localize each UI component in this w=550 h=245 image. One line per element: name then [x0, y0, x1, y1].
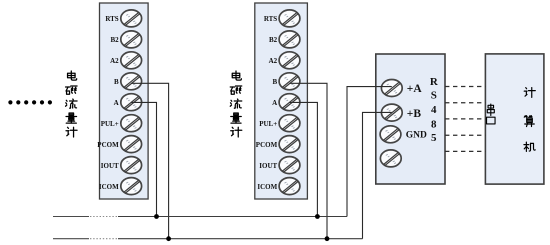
lower bus B-line dotted gap segment	[90, 238, 118, 240]
flowmeter2 terminal IOUT screw	[279, 157, 300, 174]
serial dashed line 4	[445, 134, 485, 136]
svg-text:PCOM: PCOM	[97, 141, 119, 149]
svg-text:GND: GND	[406, 131, 427, 141]
svg-text:IOUT: IOUT	[259, 162, 277, 170]
caption: computer (ji suan ji vertical)	[524, 88, 535, 152]
flowmeter1 terminal PCOM screw	[121, 136, 142, 153]
svg-text:B: B	[273, 78, 278, 86]
svg-text:A2: A2	[269, 57, 278, 65]
flowmeter2 terminal B screw	[279, 73, 300, 90]
svg-text:ICOM: ICOM	[257, 183, 277, 191]
flowmeter1 terminal labels RTS..ICOM	[97, 15, 119, 191]
flowmeter1 terminal RTS screw	[121, 10, 142, 27]
svg-text:+B: +B	[407, 108, 422, 120]
svg-text:A: A	[114, 99, 119, 107]
RS485 converter block	[376, 54, 445, 184]
junction dot: block1 B / lower bus	[166, 236, 171, 241]
flowmeter1 terminal PUL+ screw	[121, 115, 142, 132]
ellipsis dots (continuation)	[8, 100, 52, 104]
RS485 terminal GND screw	[380, 126, 401, 143]
serial dashed line 2	[445, 102, 485, 104]
caption: serial port (chuan kou vertical)	[487, 104, 496, 124]
RS485 terminal +B screw	[381, 104, 402, 121]
flowmeter1 terminal IOUT screw	[121, 157, 142, 174]
svg-text:4: 4	[431, 104, 437, 116]
lower bus B-line solid left segment	[53, 238, 89, 240]
wire: +B branch riser to RS485	[363, 112, 392, 238]
computer block	[485, 54, 544, 184]
upper bus A-line main segment	[118, 216, 347, 218]
serial dashed line 1	[445, 86, 485, 88]
svg-text:R: R	[430, 76, 439, 88]
flowmeter2 terminal RTS screw	[279, 10, 300, 27]
flowmeter2 terminal A2 screw	[279, 52, 300, 69]
flowmeter1 terminal B screw	[121, 73, 142, 90]
wire: block1 A to upper bus riser	[131, 102, 156, 216]
svg-text:8: 8	[431, 119, 437, 131]
serial dashed line 3	[445, 118, 485, 120]
caption: flowmeter 1 (dian ci liu liang ji vertical)	[66, 71, 78, 137]
junction dot: block2 A / upper bus	[315, 214, 320, 219]
flowmeter2 terminal B2 screw	[279, 31, 300, 48]
serial dashed line 5	[445, 150, 485, 152]
svg-text:+A: +A	[407, 83, 423, 95]
svg-text:B: B	[114, 78, 119, 86]
flowmeter1 terminal B2 screw	[121, 31, 142, 48]
RS485 converter vertical name text	[430, 76, 439, 144]
flowmeter2 terminal A screw	[279, 94, 300, 111]
svg-text:5: 5	[431, 132, 437, 144]
flowmeter2 terminal PUL+ screw	[279, 115, 300, 132]
svg-text:S: S	[431, 90, 437, 102]
svg-text:B2: B2	[111, 36, 120, 44]
svg-text:IOUT: IOUT	[101, 162, 119, 170]
terminal block 1	[100, 3, 149, 199]
wire: +A branch riser to RS485	[347, 87, 392, 217]
svg-text:PCOM: PCOM	[256, 141, 278, 149]
svg-text:A: A	[272, 99, 277, 107]
svg-text:PUL+: PUL+	[101, 120, 119, 128]
junction dot: block1 A / upper bus	[154, 214, 159, 219]
caption: flowmeter 2	[230, 71, 242, 137]
flowmeter2 terminal labels RTS..ICOM	[256, 15, 278, 191]
svg-text:RTS: RTS	[264, 15, 277, 23]
svg-text:A2: A2	[110, 57, 119, 65]
junction dot: block2 B / lower bus	[325, 236, 330, 241]
svg-text:PUL+: PUL+	[259, 120, 277, 128]
wire: block2 B to lower bus riser	[290, 83, 328, 238]
terminal block 2	[255, 3, 308, 199]
flowmeter2 terminal PCOM screw	[279, 136, 300, 153]
svg-text:B2: B2	[269, 36, 278, 44]
lower bus B-line main segment	[118, 238, 363, 240]
RS485 terminal spare screw	[380, 150, 401, 167]
flowmeter1 terminal A2 screw	[121, 52, 142, 69]
svg-text:RTS: RTS	[105, 15, 118, 23]
flowmeter1 terminal ICOM screw	[121, 178, 142, 195]
wire: block1 B to lower bus riser	[131, 83, 168, 238]
RS485 terminal +A screw	[381, 80, 402, 97]
wire: block2 A to upper bus riser	[290, 102, 318, 216]
upper bus A-line solid left segment	[53, 216, 89, 218]
flowmeter2 terminal ICOM screw	[279, 178, 300, 195]
upper bus A-line dotted gap segment	[90, 216, 118, 218]
svg-text:ICOM: ICOM	[99, 183, 119, 191]
flowmeter1 terminal A screw	[121, 94, 142, 111]
